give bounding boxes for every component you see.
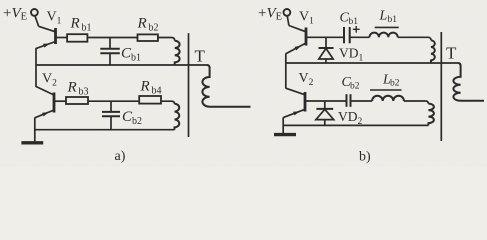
wire Rb2 to primary coil 1 (a) — [158, 38, 175, 41]
svg-text:b4: b4 — [152, 86, 162, 97]
label V2 (a) — [42, 72, 57, 89]
transistor V1 (b) — [286, 26, 306, 54]
terminal circle +VE (a) — [31, 9, 38, 16]
label Rb3 — [67, 80, 89, 98]
resistor Rb4 — [139, 96, 161, 104]
svg-text:b1: b1 — [388, 15, 398, 25]
wire V2 base to Cb2 (b) — [305, 100, 347, 102]
label VD2 — [338, 109, 363, 127]
svg-text:b1: b1 — [131, 53, 141, 64]
capacitor Cb1 (a) — [100, 38, 120, 66]
svg-text:b2: b2 — [390, 79, 400, 89]
wire V1 base lead (a) — [56, 37, 68, 39]
label Rb4 — [140, 79, 162, 97]
ground (b) — [274, 133, 296, 136]
label Cb2 (b) — [342, 75, 360, 92]
label Lb2 — [382, 73, 400, 89]
transformer core (a) — [188, 33, 190, 137]
diode VD1 — [319, 37, 334, 63]
wire terminal to V1 collector (b) — [287, 16, 289, 26]
label b) — [359, 150, 371, 165]
wire Cb2 to Lb2 (b) — [351, 100, 373, 102]
wire mid rail (a) — [36, 64, 207, 66]
label T (a) — [195, 47, 206, 66]
svg-text:b2: b2 — [149, 23, 159, 34]
svg-text:b2: b2 — [350, 82, 360, 92]
label VD1 — [339, 46, 364, 64]
transistor V1 (a) — [36, 26, 55, 48]
label Rb2 — [137, 16, 159, 34]
node +VE supply label (b) — [258, 6, 282, 23]
svg-text:b3: b3 — [79, 87, 89, 98]
svg-text:R: R — [137, 16, 147, 32]
label V2 (b) — [299, 71, 314, 88]
wire Lb1 to primary coil 1 (b) — [398, 37, 431, 40]
label Cb1 (a) — [121, 46, 141, 64]
capacitor Cb2 (a) — [102, 101, 120, 130]
transistor V2 (a) — [35, 87, 54, 118]
capacitor Cb1 (b) — [344, 27, 350, 43]
wire left rail V1e-V2c (a) — [35, 48, 37, 87]
svg-text:b1: b1 — [82, 23, 92, 34]
wire terminal to V1 collector (a) — [35, 16, 39, 27]
label T (b) — [446, 44, 457, 63]
resistor Rb3 — [66, 97, 88, 104]
transformer primary winding 1 (a) — [175, 41, 180, 65]
label V1 (a) — [47, 10, 62, 27]
diode VD2 — [316, 101, 334, 125]
transformer primary winding 1 (b) — [431, 40, 435, 63]
wire V2 base lead (a) — [54, 100, 66, 102]
resistor Rb2 — [138, 34, 158, 41]
inductor Lb1 core bar — [375, 26, 399, 28]
transformer primary winding 2 (a) — [175, 104, 180, 130]
polarity + (b) — [353, 26, 360, 33]
svg-text:b2: b2 — [132, 116, 142, 127]
transformer core (b) — [440, 32, 442, 141]
svg-text:b1: b1 — [349, 17, 359, 27]
transformer secondary winding (a) — [202, 65, 250, 107]
capacitor Cb2 (b) — [347, 94, 351, 107]
terminal circle +VE (b) — [284, 9, 291, 16]
svg-text:L: L — [379, 9, 388, 24]
label Rb1 — [70, 16, 92, 34]
svg-text:R: R — [67, 80, 77, 96]
transformer primary winding 2 (b) — [428, 104, 434, 126]
wire V1 base to Cb1 (b) — [306, 36, 344, 38]
label Lb1 — [379, 9, 398, 26]
wire bottom rail (b) — [283, 124, 428, 126]
transformer secondary winding (b) — [453, 63, 484, 101]
wire mid rail (b) — [286, 62, 459, 64]
inductor Lb2 — [372, 96, 404, 101]
svg-text:a): a) — [115, 149, 126, 164]
wire Rb3 to Rb4 (a) — [88, 100, 139, 102]
label V1 (b) — [299, 10, 314, 27]
wire Cb1 to Lb1 (b) — [350, 36, 370, 38]
label Cb2 (a) — [122, 109, 142, 127]
wire bottom rail (a) — [35, 129, 175, 131]
inductor Lb2 core bar — [370, 89, 402, 91]
wire Lb2 to primary coil 2 (b) — [404, 101, 429, 104]
transistor V2 (b) — [283, 88, 305, 117]
label a) — [115, 149, 126, 164]
node +VE supply label (a) — [3, 6, 27, 23]
ground (a) — [21, 141, 43, 144]
svg-text:R: R — [70, 16, 80, 32]
resistor Rb1 — [67, 34, 87, 42]
inductor Lb1 — [369, 33, 397, 38]
svg-text:T: T — [446, 44, 457, 63]
wire V2 emitter to ground (b) — [282, 117, 284, 134]
wire Rb4 to primary coil 2 (a) — [161, 101, 175, 104]
wire left rail V1e-V2c (b) — [285, 54, 287, 89]
label Cb1 (b) — [340, 11, 359, 28]
svg-text:R: R — [140, 79, 150, 95]
wire Rb1 to Rb2 (a) — [87, 37, 137, 39]
svg-text:b): b) — [359, 150, 371, 165]
svg-text:T: T — [195, 47, 206, 66]
wire V2 emitter to ground (a) — [34, 118, 36, 143]
